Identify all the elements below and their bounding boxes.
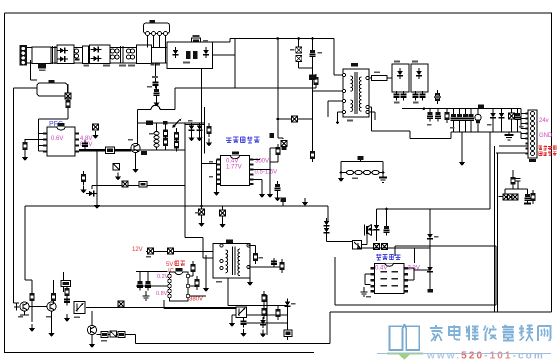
wire: [164, 255, 288, 309]
ground: [89, 340, 95, 348]
label D17 value: [434, 236, 439, 238]
resistor R15: [281, 141, 287, 147]
label U6 pin: [366, 296, 371, 298]
capacitor C26: [137, 278, 143, 291]
label D9 value: [412, 61, 418, 63]
node: [277, 118, 280, 121]
resistor R11: [113, 164, 120, 171]
resistor R25: [51, 290, 56, 304]
node: [385, 208, 388, 211]
svg-text:0.2V: 0.2V: [157, 274, 169, 280]
wire: [146, 237, 222, 258]
label Q6 value: [46, 316, 51, 318]
resistor R16: [372, 75, 388, 80]
bridge rectifier BD1: [167, 42, 213, 69]
svg-text:www.520-101-com: www.520-101-com: [426, 351, 545, 362]
diode D11: [499, 109, 505, 133]
capacitor C20: [463, 109, 469, 133]
capacitor C43: [503, 194, 509, 200]
ground: [203, 284, 209, 292]
capacitor C20b: [468, 109, 474, 133]
resistor R20: [280, 259, 285, 273]
svg-text:0.8V: 0.8V: [156, 291, 168, 297]
label C7 value: [318, 52, 323, 54]
IC U2 (SMPS controller): [217, 152, 254, 186]
capacitor C17: [427, 109, 433, 122]
label R19 value: [259, 257, 264, 259]
svg-text:0.4V: 0.4V: [375, 266, 387, 272]
capacitor C7: [310, 39, 316, 60]
ground: [206, 139, 212, 147]
resistor R28: [110, 331, 117, 337]
label BD1 value: [183, 62, 190, 64]
ground: [80, 186, 86, 194]
resistor R9: [174, 129, 179, 152]
label U2 pin1: [209, 161, 213, 163]
ground: [22, 153, 28, 161]
label C19 value: [450, 127, 455, 129]
ground: [29, 324, 35, 332]
node: [220, 244, 223, 247]
diode D5: [189, 123, 195, 134]
ground: [459, 132, 465, 166]
resistor R8: [163, 127, 168, 150]
capacitor C32: [118, 301, 124, 307]
inductor L2: [111, 49, 120, 59]
ground: [64, 314, 70, 322]
filter block 2: [137, 45, 152, 64]
node: [200, 205, 203, 208]
filter block: [32, 47, 51, 64]
label D8 value: [394, 61, 400, 63]
resistor R18: [445, 109, 450, 123]
transistor Q2: [173, 119, 182, 128]
varistor chain RV1: [346, 170, 379, 174]
capacitor C25: [271, 258, 277, 268]
ground: [229, 319, 235, 327]
resistor R29: [118, 332, 125, 338]
capacitor C23: [148, 248, 154, 254]
wire: [92, 150, 185, 189]
label U4 value: [74, 317, 80, 319]
capacitor C12: [275, 181, 281, 194]
capacitor C30: [14, 304, 19, 311]
inductor L4: [154, 132, 159, 148]
wire: [92, 311, 136, 340]
rectifier block D9: [411, 64, 428, 92]
wire output bus: [402, 109, 528, 312]
svg-text:5V: 5V: [166, 262, 173, 268]
node: [382, 171, 385, 174]
label Q5 value: [18, 316, 23, 318]
wire: [14, 272, 237, 329]
node: [297, 37, 300, 40]
diode D18: [427, 264, 433, 275]
transformer T2: [213, 240, 250, 279]
zener block D12: [61, 280, 71, 286]
connector P1: [144, 20, 170, 36]
label backlight: [376, 254, 400, 260]
ground: [274, 194, 280, 202]
capacitor CX1: [53, 46, 56, 64]
ground: [302, 198, 308, 206]
connector CN1 (AC inlet): [20, 45, 28, 66]
label C23 value: [146, 256, 151, 258]
capacitor C35: [428, 289, 434, 292]
ground: [240, 329, 246, 337]
wire: [328, 66, 410, 131]
svg-text:12V: 12V: [132, 247, 143, 253]
resistor R13: [276, 144, 281, 158]
svg-text:24v: 24v: [539, 118, 549, 124]
optocoupler U5: [236, 307, 247, 318]
resistor R2: [314, 74, 319, 88]
connector CN2 (output): [526, 110, 538, 162]
capacitor C18: [435, 109, 441, 122]
transistor Q6: [47, 302, 56, 311]
resistor R7: [106, 147, 115, 153]
node: [366, 77, 369, 80]
wire: [185, 107, 205, 154]
IC U6 (backlight driver): [371, 263, 409, 293]
capacitor C46: [478, 105, 484, 109]
node: [277, 37, 280, 40]
wire: [498, 170, 527, 197]
ground: [213, 188, 219, 196]
capacitor C34: [384, 223, 390, 236]
label D10 value: [487, 124, 492, 126]
ground: [260, 330, 266, 338]
capacitor C15: [413, 91, 419, 104]
capacitor C31: [64, 296, 70, 306]
inductor L3: [127, 49, 136, 66]
svg-text:GND: GND: [539, 133, 553, 139]
resistor R12: [139, 182, 147, 188]
resistor R32: [276, 306, 281, 320]
wire: [341, 162, 383, 173]
wire: [364, 268, 430, 289]
wire: [357, 243, 430, 248]
optocoupler U4: [74, 302, 85, 314]
capacitor C5: [151, 64, 161, 89]
wire: [247, 295, 288, 340]
capacitor C10: [163, 121, 168, 125]
capacitor C39: [292, 116, 298, 122]
wire: [27, 48, 169, 64]
thermistor RT1: [38, 64, 46, 72]
wire long bus: [14, 88, 329, 303]
node: [340, 171, 343, 174]
label 5V supply: [166, 261, 185, 268]
resistor R6: [93, 124, 99, 130]
svg-text:1.77V: 1.77V: [226, 165, 242, 171]
transistor Q7: [87, 325, 96, 334]
watermark book base: [387, 352, 423, 359]
node: [220, 260, 223, 263]
choke block LF2: [90, 45, 111, 66]
capacitor C28: [199, 206, 205, 219]
transistor Q1: [131, 143, 140, 165]
label main SMPS: [226, 137, 259, 143]
label dim: [539, 151, 557, 155]
capacitor C37: [382, 244, 388, 250]
ground: [267, 190, 273, 198]
resistor R4: [65, 84, 71, 111]
resistor R40: [531, 190, 536, 204]
resistor R17: [434, 90, 441, 104]
diode pair D15: [324, 218, 330, 236]
label R16 value: [374, 72, 380, 74]
ground: [196, 134, 202, 142]
label Q1 value: [128, 139, 133, 141]
resistor R33: [284, 330, 292, 337]
wire: [278, 39, 344, 140]
capacitor C21: [509, 109, 515, 133]
capacitor C14: [401, 91, 407, 101]
resistor R3: [310, 95, 315, 162]
capacitor C24: [168, 248, 174, 254]
resistor R34: [81, 171, 86, 185]
ground: [247, 278, 253, 286]
wire: [202, 160, 217, 193]
capacitor C41: [281, 198, 287, 207]
fuse F2: [151, 105, 160, 109]
resistor R24: [30, 290, 35, 304]
label RV1 value: [352, 178, 358, 180]
fusible resistor R1: [192, 35, 201, 44]
capacitor C42: [516, 179, 521, 185]
svg-text:380V: 380V: [189, 297, 203, 303]
label D13 value: [291, 303, 296, 305]
ground: [188, 134, 194, 142]
capacitor C13: [394, 91, 400, 104]
capacitor C45: [512, 194, 518, 200]
node: [343, 90, 346, 93]
capacitor C9: [82, 140, 88, 150]
resistor R30: [262, 291, 267, 305]
label D3 value: [290, 49, 295, 51]
wire: [254, 148, 271, 190]
capacitor C33: [241, 318, 247, 328]
resistor R23: [195, 276, 200, 290]
node: [220, 267, 223, 270]
ground: [153, 99, 159, 107]
capacitor C29: [220, 206, 226, 220]
capacitor C44: [508, 194, 514, 200]
capacitor C6: [152, 76, 160, 99]
label C28 value: [195, 212, 200, 214]
svg-text:0.5-1.5V: 0.5-1.5V: [255, 170, 278, 176]
label U2 pin8: [209, 176, 213, 178]
capacitor C11: [122, 181, 128, 187]
diode D10: [490, 109, 496, 133]
resistor R27: [101, 332, 108, 338]
node: [343, 111, 346, 114]
label R27 value: [101, 340, 107, 342]
watermark strike: [377, 353, 551, 355]
node: [247, 244, 250, 247]
diode D6: [197, 123, 203, 134]
node: [423, 107, 426, 110]
capacitor C38: [358, 156, 364, 162]
choke block LF1: [57, 45, 74, 64]
driver block Q8: [353, 241, 362, 250]
ground: [360, 289, 367, 296]
inductor L1: [75, 49, 80, 61]
capacitor C16: [420, 91, 426, 101]
wire enclosure: [335, 246, 496, 305]
label D5 value: [188, 120, 193, 122]
wire: [136, 312, 552, 344]
wire: [131, 123, 185, 237]
ground: [198, 219, 204, 227]
node: [247, 266, 250, 269]
ground: [505, 132, 514, 140]
resistor R38: [207, 123, 212, 137]
node: [366, 106, 369, 109]
node: [311, 37, 314, 40]
diode D16: [374, 222, 380, 233]
ground: [48, 329, 54, 337]
wire: [136, 272, 168, 294]
resistor R5: [23, 139, 39, 153]
IC U1 (PFC controller): [43, 123, 79, 156]
capacitor C47: [524, 191, 531, 204]
capacitor CX2: [83, 46, 90, 66]
rectifier block D8: [392, 64, 409, 92]
label on/off: [538, 146, 556, 150]
wire: [148, 36, 166, 83]
resistor R39: [511, 177, 516, 185]
ground: [94, 201, 100, 209]
ground: [115, 173, 121, 181]
ground: [142, 293, 149, 300]
label R1 value: [203, 40, 208, 42]
ground: [92, 131, 98, 139]
capacitor C19: [451, 109, 457, 133]
label L4 value: [149, 133, 154, 135]
capacitor C22: [515, 109, 521, 133]
label T2 value: [216, 281, 222, 283]
resistor R19: [253, 250, 258, 264]
ground: [259, 190, 265, 198]
resistor R22: [191, 261, 196, 276]
diode D14: [260, 317, 266, 328]
transformer T1: [343, 63, 369, 117]
ground: [132, 165, 138, 173]
component R37: [141, 151, 147, 155]
transistor Q9 (MOSFET): [365, 225, 372, 236]
capacitor CY1: [119, 46, 126, 66]
IC U3 (5V regulator): [168, 268, 190, 301]
relay block: [37, 80, 68, 96]
resistor R31: [262, 305, 267, 319]
resistor R10: [146, 121, 153, 126]
wire: [137, 88, 235, 144]
resistor R26: [65, 285, 70, 299]
diode D17: [427, 231, 433, 242]
capacitor C36: [374, 244, 380, 250]
svg-text:0.6V: 0.6V: [51, 136, 63, 142]
transistor Q5: [20, 302, 29, 311]
ground: [338, 174, 344, 182]
wire: [254, 159, 261, 161]
ground: [379, 173, 387, 183]
zener D4: [296, 56, 302, 62]
capacitor C27: [145, 278, 151, 291]
node: [343, 100, 346, 103]
diode D7: [86, 186, 97, 202]
resistor R35: [309, 75, 316, 81]
watermark book icon: [390, 324, 420, 350]
wire: [31, 60, 38, 80]
node: [343, 74, 346, 77]
node: [336, 121, 339, 124]
zener D3: [296, 39, 302, 54]
node: [366, 111, 369, 114]
capacitor C40: [282, 147, 287, 150]
label C22 value: [519, 126, 524, 128]
ground: [219, 220, 225, 228]
label C17 value: [427, 124, 432, 126]
resistor R36: [270, 133, 275, 138]
wire thick drain bus: [79, 149, 131, 151]
wire: [232, 315, 236, 319]
label C5 value: [147, 86, 152, 88]
watermark title: [430, 325, 551, 341]
wire: [249, 246, 283, 279]
wire: [270, 144, 278, 162]
label T1 value: [347, 120, 353, 122]
wire: [39, 111, 69, 151]
wire HV bus: [202, 39, 345, 207]
wire: [327, 206, 491, 289]
diode D13: [285, 299, 291, 310]
capacitor C19b: [457, 109, 463, 133]
inductor L5: [475, 109, 481, 133]
